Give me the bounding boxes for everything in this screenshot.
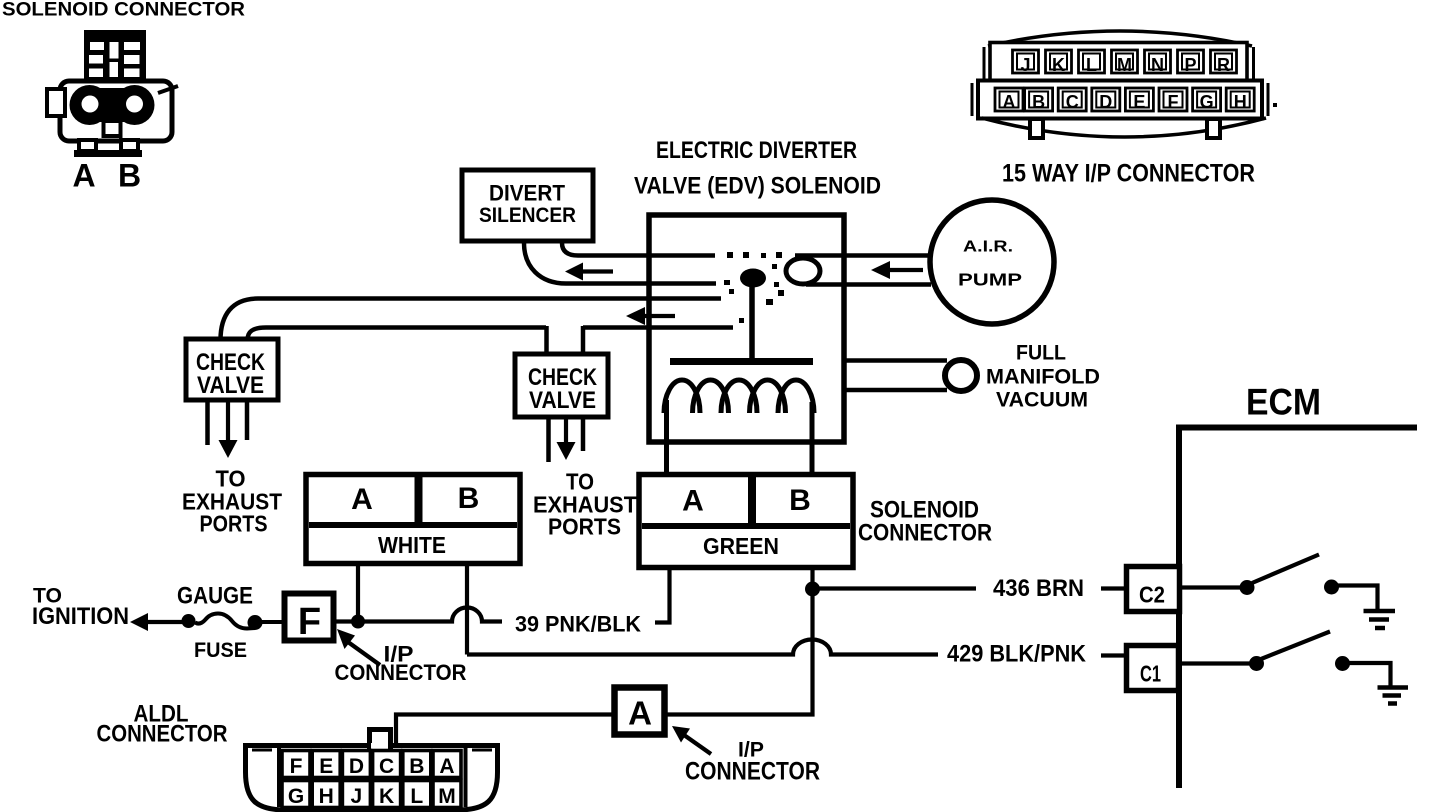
svg-text:GAUGE: GAUGE — [177, 583, 253, 610]
switch 1 wire from C2 — [1180, 585, 1241, 589]
svg-text:P: P — [1184, 55, 1196, 75]
svg-text:SOLENOID CONNECTOR: SOLENOID CONNECTOR — [2, 0, 245, 21]
flow arrow (pump pipe) — [871, 261, 890, 279]
svg-text:CONNECTOR: CONNECTOR — [685, 758, 820, 786]
svg-text:A: A — [439, 755, 454, 778]
solenoid connector icon — [47, 30, 178, 157]
check valve 1 box — [186, 339, 278, 400]
svg-text:G: G — [1200, 92, 1214, 112]
ALDL cell H — [312, 781, 340, 809]
pin N — [1145, 50, 1171, 75]
wire: 436 BRN — [818, 586, 976, 590]
pin F — [1159, 88, 1187, 112]
wire: F to 39 PNK/BLK with hop over white B wire — [334, 608, 502, 622]
solenoid coil winding — [664, 380, 700, 413]
svg-text:B: B — [1032, 92, 1045, 112]
svg-text:B: B — [789, 484, 811, 517]
svg-text:L: L — [410, 785, 423, 808]
arrow to A box — [672, 726, 690, 743]
svg-text:IGNITION: IGNITION — [32, 603, 129, 630]
svg-text:FULL: FULL — [1016, 341, 1066, 365]
svg-text:MANIFOLD: MANIFOLD — [986, 365, 1100, 389]
svg-text:39 PNK/BLK: 39 PNK/BLK — [515, 612, 642, 637]
svg-text:E: E — [1133, 92, 1145, 112]
pin L — [1079, 50, 1105, 75]
pin A — [995, 88, 1023, 112]
svg-text:FUSE: FUSE — [194, 639, 247, 662]
15-way bottom arc — [982, 118, 1266, 137]
svg-text:J: J — [351, 785, 363, 808]
svg-text:C1: C1 — [1140, 661, 1161, 687]
pin R — [1211, 50, 1237, 75]
wire: switch 2 to ground — [1349, 663, 1391, 686]
check valve 1 outlet lines + arrow — [205, 402, 210, 445]
svg-text:A: A — [1003, 92, 1016, 112]
ALDL cell C — [373, 751, 401, 779]
manifold vacuum port circle — [945, 360, 977, 391]
wire: to ignition arrow — [130, 613, 148, 631]
ALDL connector shell — [246, 746, 498, 811]
svg-text:A: A — [72, 158, 95, 194]
ALDL cell A — [433, 751, 461, 779]
flow arrow (exhaust pipe) — [626, 307, 645, 325]
svg-text:F: F — [1168, 92, 1179, 112]
arrow to F box — [337, 629, 355, 649]
ALDL cell B — [403, 751, 431, 779]
svg-text:C: C — [379, 755, 394, 778]
F connector box — [285, 594, 334, 641]
C2 connector box — [1127, 567, 1180, 612]
branch stubs to check valve 2 — [544, 326, 549, 355]
wire: 429 BLK/PNK from white B with hop over A-box wire — [467, 640, 938, 655]
svg-text:F: F — [298, 601, 321, 643]
svg-text:B: B — [458, 482, 480, 515]
svg-text:WHITE: WHITE — [378, 532, 446, 558]
svg-text:VALVE (EDV) SOLENOID: VALVE (EDV) SOLENOID — [634, 173, 881, 200]
svg-text:M: M — [1117, 55, 1132, 75]
15-way mounting tab left — [1030, 119, 1043, 138]
svg-text:D: D — [349, 755, 364, 778]
pipe: check valve 1 elbow lower line — [248, 328, 547, 341]
svg-text:K: K — [1052, 55, 1065, 75]
ALDL cell M — [433, 781, 461, 809]
svg-text:GREEN: GREEN — [703, 533, 779, 559]
ALDL cell D — [342, 751, 370, 779]
A.I.R. pump circle — [930, 200, 1054, 324]
check valve 2 outlet lines + arrow — [546, 419, 551, 462]
pipe lower line right segment — [583, 325, 733, 330]
svg-text:VACUUM: VACUUM — [996, 388, 1088, 412]
15-way lower shell — [978, 81, 1262, 119]
svg-text:G: G — [288, 785, 304, 808]
switch 2 throw dot — [1335, 656, 1350, 671]
svg-text:J: J — [1020, 55, 1030, 75]
svg-text:A: A — [628, 695, 652, 732]
wire: switch 1 to ground — [1338, 586, 1378, 611]
svg-text:D: D — [1099, 92, 1112, 112]
ALDL cell E — [312, 751, 340, 779]
svg-text:H: H — [1234, 92, 1247, 112]
svg-text:PUMP: PUMP — [958, 270, 1022, 290]
ALDL cell J — [342, 781, 370, 809]
EDV solenoid box — [649, 215, 844, 442]
svg-text:PORTS: PORTS — [548, 514, 621, 540]
I/P connector A box — [615, 688, 665, 735]
pin K — [1046, 50, 1072, 75]
switch 1 throw dot — [1324, 580, 1339, 595]
svg-text:K: K — [379, 785, 394, 808]
svg-text:A.I.R.: A.I.R. — [963, 239, 1013, 256]
svg-text:A: A — [682, 485, 704, 518]
svg-text:DIVERT: DIVERT — [489, 181, 566, 206]
svg-text:N: N — [1151, 55, 1164, 75]
wire: 39 PNK/BLK up to green A — [655, 568, 670, 623]
wire: fuse to F connector — [261, 620, 285, 624]
svg-text:SILENCER: SILENCER — [479, 204, 576, 227]
pin J — [1013, 50, 1039, 75]
pipe: silencer to EDV lower line — [524, 243, 716, 284]
fuse element — [195, 614, 255, 629]
divert silencer box — [462, 170, 593, 241]
svg-text:429 BLK/PNK: 429 BLK/PNK — [947, 641, 1087, 668]
pipe: A.I.R. pump to EDV — [795, 253, 931, 258]
svg-text:436 BRN: 436 BRN — [993, 575, 1084, 602]
svg-text:H: H — [319, 785, 334, 808]
pipe: check valve 1 elbow to EDV upper line — [221, 299, 722, 341]
pipe: full manifold vacuum — [846, 358, 947, 363]
svg-text:M: M — [438, 785, 456, 808]
switch 2 wire from C1 — [1179, 661, 1250, 665]
coil leg left — [664, 400, 669, 479]
svg-text:B: B — [409, 755, 424, 778]
green connector (solenoid connector) — [639, 475, 853, 568]
switch 2 blade — [1261, 632, 1330, 660]
EDV valve disc — [740, 269, 766, 288]
svg-text:C2: C2 — [1139, 582, 1165, 608]
pin P — [1178, 50, 1204, 75]
svg-text:A: A — [351, 483, 373, 516]
EDV valve stem — [749, 286, 755, 358]
coil leg right — [810, 402, 815, 479]
svg-text:ECM: ECM — [1246, 382, 1321, 423]
switch 1 pole dot — [1240, 580, 1255, 595]
pin G — [1193, 88, 1221, 112]
junction dot (F / white A) — [351, 615, 365, 629]
pin D — [1092, 88, 1120, 112]
EDV port circle — [786, 258, 820, 284]
wire: ALDL to A box — [396, 715, 614, 747]
switch 1 blade — [1252, 555, 1319, 584]
pipe: silencer to EDV upper line — [562, 243, 715, 256]
pin M — [1112, 50, 1138, 75]
svg-text:R: R — [1217, 55, 1230, 75]
EDV valve spray dots — [724, 252, 784, 323]
svg-text:VALVE: VALVE — [529, 387, 596, 414]
pin E — [1125, 88, 1153, 112]
wire: green B down to A-box corner — [665, 568, 813, 715]
ground 2 — [1378, 685, 1409, 690]
wire: white connector B down — [465, 565, 469, 655]
white connector (spare) — [306, 475, 520, 564]
svg-text:15 WAY I/P CONNECTOR: 15 WAY I/P CONNECTOR — [1002, 160, 1255, 188]
check valve 2 box — [515, 354, 608, 417]
svg-text:B: B — [118, 158, 141, 194]
pin B — [1025, 88, 1053, 112]
C1 connector box — [1127, 646, 1179, 691]
flow arrow (divert pipe) — [565, 263, 583, 281]
fuse terminal dot left — [182, 614, 196, 628]
svg-text:VALVE: VALVE — [197, 372, 264, 399]
15-way I/P connector icon — [984, 31, 1254, 85]
15-way mounting tab right — [1207, 119, 1220, 138]
ECM boundary — [1179, 428, 1417, 789]
svg-text:E: E — [319, 755, 333, 778]
ground 1 — [1364, 609, 1396, 614]
ALDL cell F — [282, 751, 310, 779]
svg-text:CONNECTOR: CONNECTOR — [97, 721, 228, 748]
svg-text:C: C — [1066, 92, 1079, 112]
fuse terminal dot right — [248, 615, 263, 630]
wire: white connector A down — [356, 565, 360, 618]
svg-text:ELECTRIC DIVERTER: ELECTRIC DIVERTER — [656, 137, 857, 164]
svg-text:CONNECTOR: CONNECTOR — [858, 520, 992, 547]
ALDL cell L — [403, 781, 431, 809]
svg-text:L: L — [1086, 55, 1097, 75]
pin H — [1226, 88, 1254, 112]
ALDL cell G — [282, 781, 310, 809]
svg-text:CONNECTOR: CONNECTOR — [335, 660, 467, 685]
ALDL tab — [370, 730, 391, 748]
junction dot (green B / 436 BRN) — [805, 582, 820, 597]
ALDL cell K — [373, 781, 401, 809]
EDV valve seat bar — [670, 358, 813, 365]
switch 2 pole dot — [1249, 656, 1264, 671]
svg-text:F: F — [290, 755, 303, 778]
svg-text:PORTS: PORTS — [200, 511, 268, 537]
ALDL end caps — [277, 748, 281, 807]
pin C — [1058, 88, 1086, 112]
